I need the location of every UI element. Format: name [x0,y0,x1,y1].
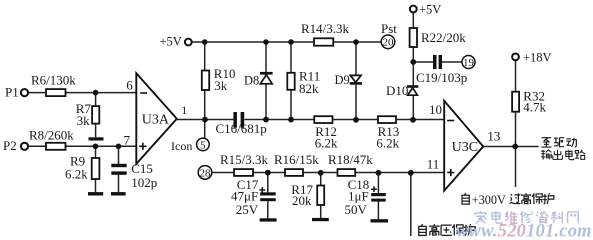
svg-text:6.2k: 6.2k [315,136,338,151]
svg-text:R18/47k: R18/47k [328,152,373,167]
svg-text:13: 13 [487,129,500,144]
svg-text:D10: D10 [386,83,408,98]
svg-text:28: 28 [200,167,212,179]
svg-text:6: 6 [126,77,133,92]
svg-text:6.2k: 6.2k [65,166,88,181]
svg-text:10: 10 [429,102,442,117]
svg-text:5: 5 [200,139,206,151]
svg-text:7: 7 [124,132,131,147]
svg-text:4.7k: 4.7k [523,99,546,114]
svg-text:+18V: +18V [523,51,552,65]
svg-text:Pst: Pst [381,21,397,36]
svg-text:20: 20 [383,37,395,49]
svg-text:+5V: +5V [419,3,441,17]
svg-text:R15/3.3k: R15/3.3k [220,152,269,167]
svg-text:R8/260k: R8/260k [29,127,74,142]
svg-text:3k: 3k [77,113,91,128]
svg-text:R14/3.3k: R14/3.3k [301,21,350,36]
svg-text:82k: 82k [299,81,319,96]
svg-text:C19/103p: C19/103p [416,70,467,85]
svg-text:P1: P1 [5,84,19,99]
svg-text:C16/681p: C16/681p [216,121,267,136]
svg-text:R16/15k: R16/15k [274,152,319,167]
svg-text:3k: 3k [214,78,228,93]
svg-text:11: 11 [427,157,440,172]
svg-text:+5V: +5V [160,34,182,48]
svg-text:C15: C15 [131,161,153,176]
svg-text:P2: P2 [3,138,17,153]
svg-text:1: 1 [181,103,187,117]
svg-text:www.520101.com: www.520101.com [456,221,592,240]
svg-text:+300V: +300V [472,193,506,207]
svg-text:U3A: U3A [142,113,170,128]
svg-text:50V: 50V [345,202,368,217]
svg-text:19: 19 [463,57,475,69]
svg-text:U3C: U3C [452,140,478,155]
svg-text:R22/20k: R22/20k [421,30,466,45]
svg-text:Icon: Icon [171,139,192,153]
svg-text:102p: 102p [131,175,157,190]
svg-text:D9: D9 [335,73,350,87]
svg-text:R6/130k: R6/130k [31,72,76,87]
svg-text:D8: D8 [244,74,259,88]
svg-text:25V: 25V [236,202,259,217]
svg-text:6.2k: 6.2k [376,136,399,151]
svg-text:20k: 20k [292,193,312,208]
